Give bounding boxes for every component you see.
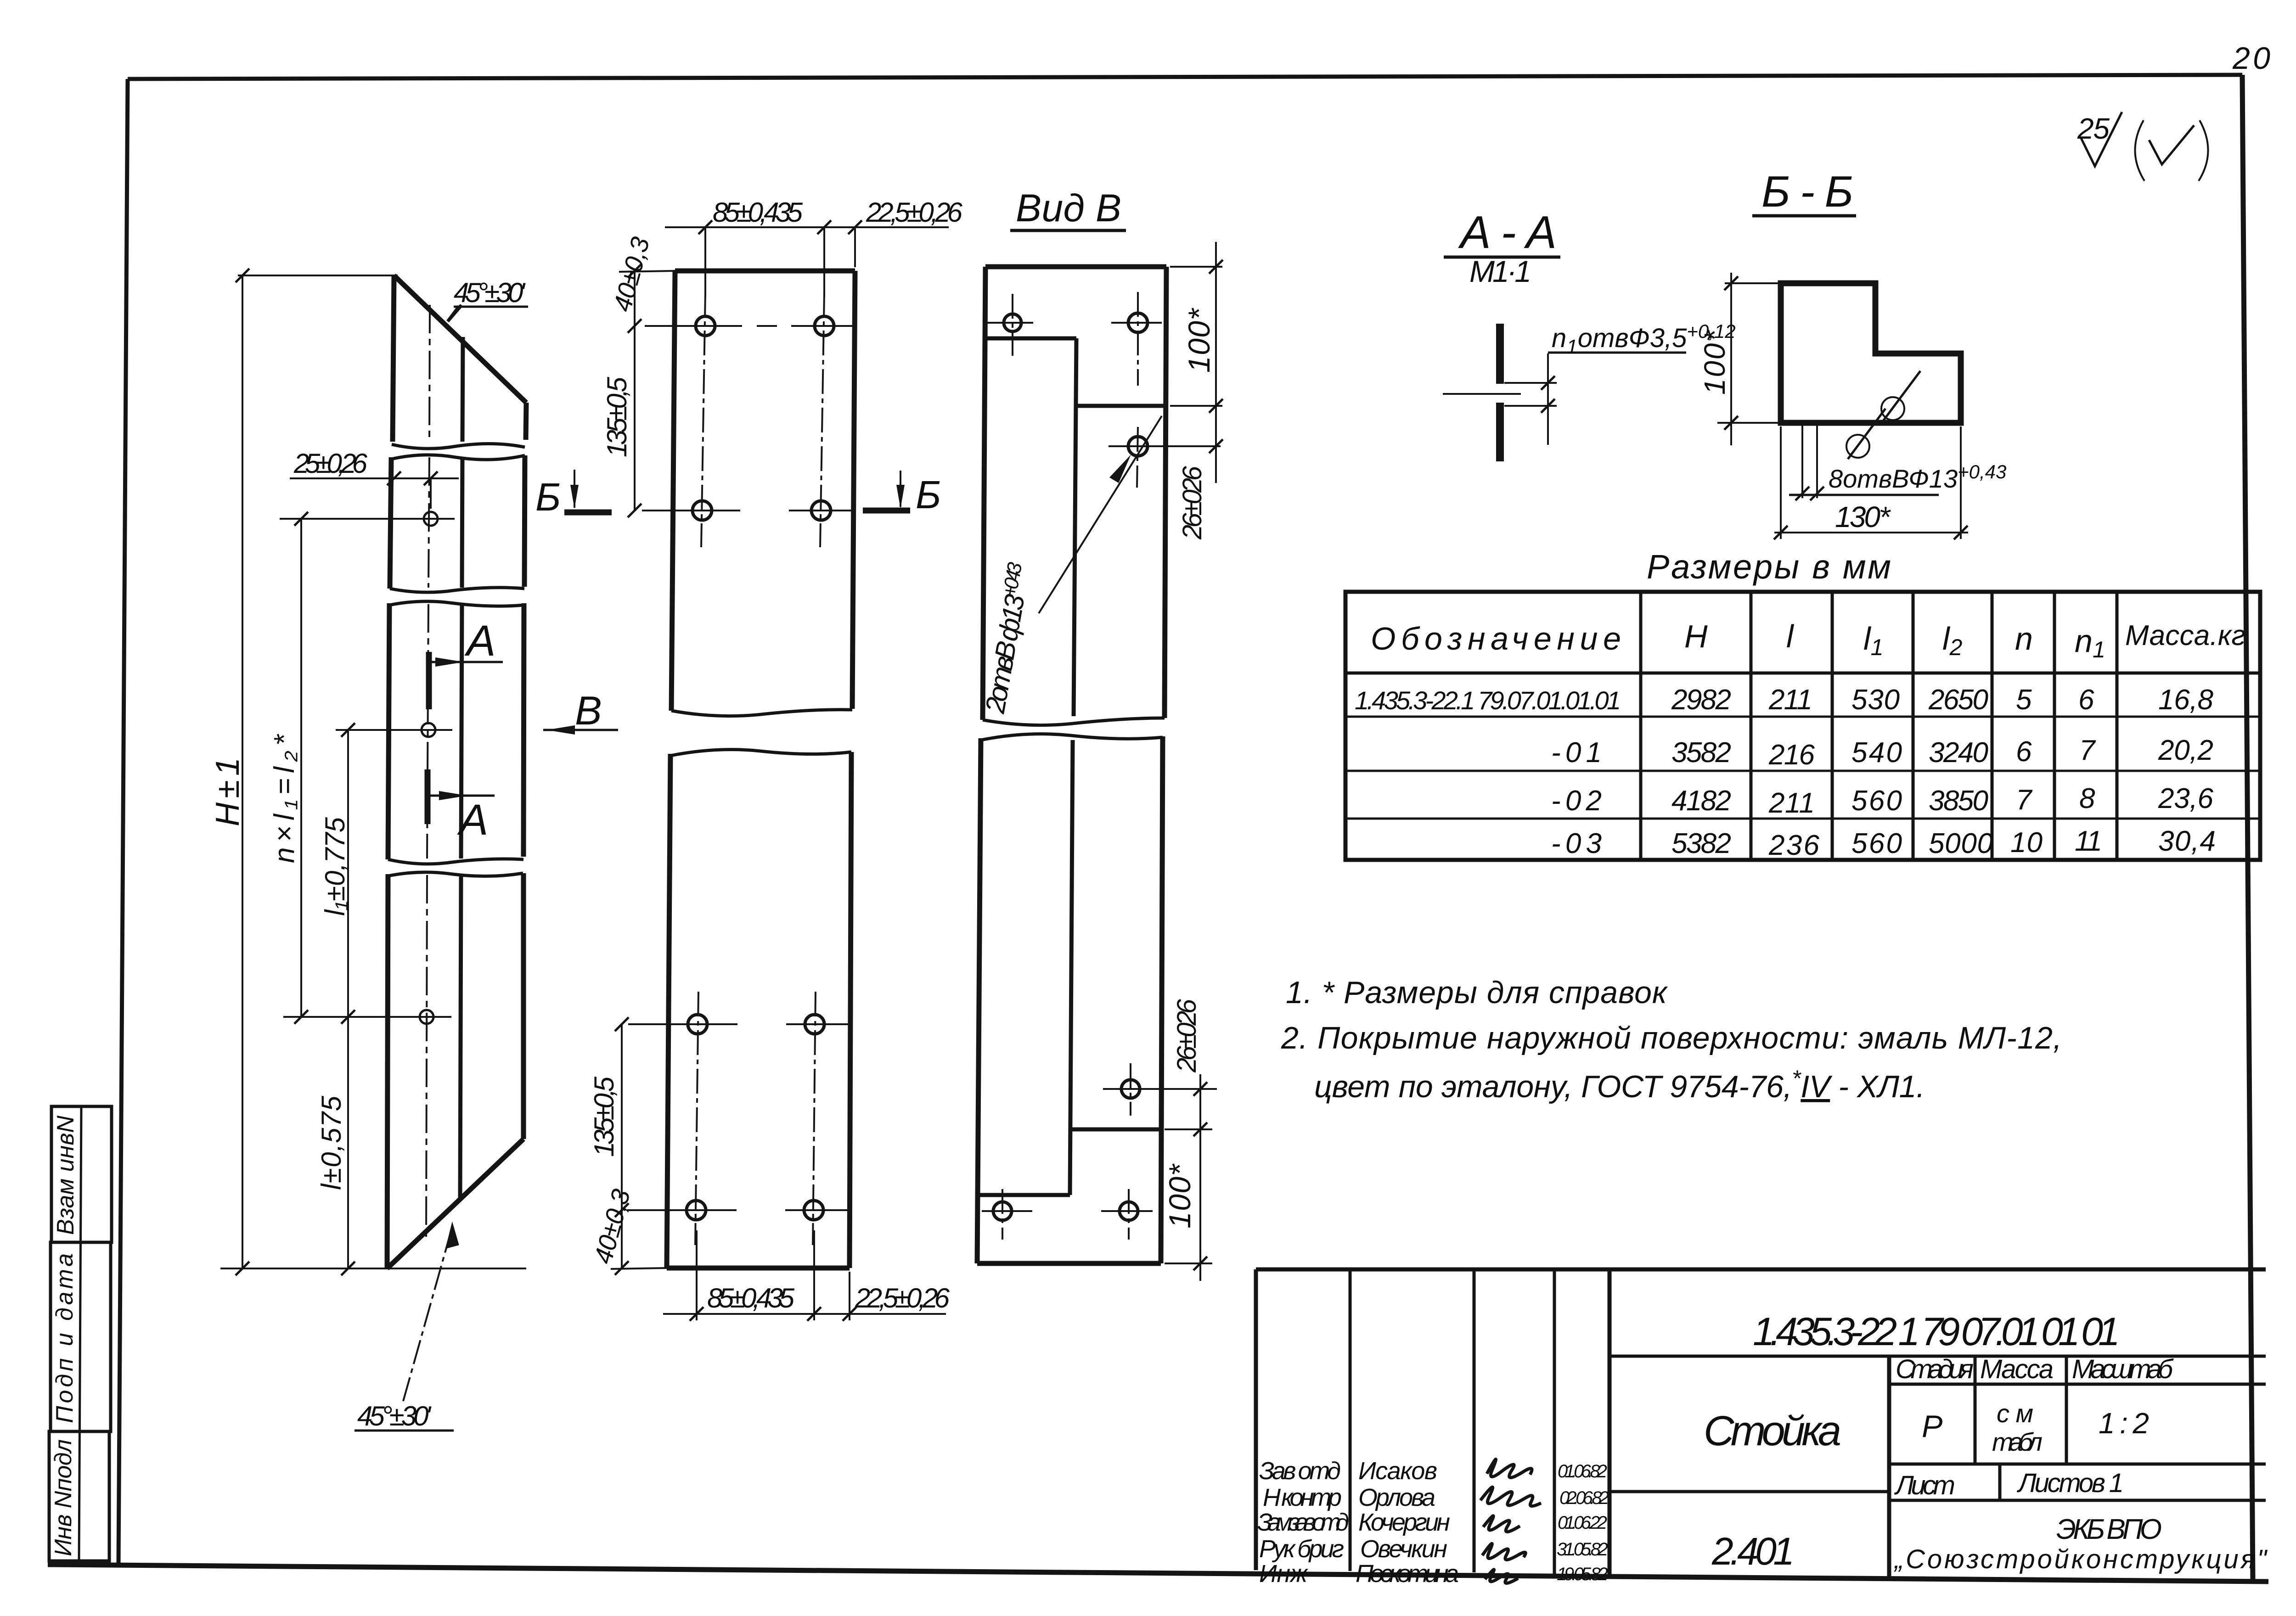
L-shaped outline	[1781, 283, 1961, 423]
seg1 inner step line	[985, 337, 1076, 341]
svg-text:А: А	[457, 796, 488, 844]
svg-text:-03: -03	[1551, 828, 1602, 859]
hole r4c1	[687, 1201, 706, 1220]
hole r3c2	[805, 1015, 824, 1034]
svg-text:1.435.3-22.1 79.07.01.01.01: 1.435.3-22.1 79.07.01.01.01	[1355, 686, 1621, 715]
plate bar cross-section	[1496, 324, 1504, 461]
svg-text:l±0,575: l±0,575	[316, 1095, 347, 1190]
inner edge line	[462, 337, 463, 442]
svg-text:1:2: 1:2	[2099, 1407, 2149, 1440]
svg-text:М1·1: М1·1	[1469, 254, 1531, 288]
extension line hole row A	[280, 518, 455, 520]
svg-text:5: 5	[2016, 684, 2032, 716]
svg-text:Взам инвN: Взам инвN	[52, 1116, 79, 1235]
seg1 lower hole with leader	[1128, 437, 1148, 456]
svg-text:100*: 100*	[1163, 1163, 1197, 1229]
svg-text:6: 6	[2078, 684, 2094, 716]
seg2 bottom holes	[993, 1202, 1012, 1220]
svg-text:216: 216	[1768, 739, 1815, 771]
dimension H+-1	[242, 275, 243, 1268]
seg2 upper hole	[1121, 1080, 1140, 1098]
horizontal centre lines row1	[645, 325, 742, 327]
svg-text:530: 530	[1851, 684, 1900, 716]
svg-text:211: 211	[1768, 684, 1812, 716]
svg-text:25±0,26: 25±0,26	[293, 448, 368, 479]
svg-text:Стойка: Стойка	[1704, 1408, 1841, 1454]
hole A	[424, 512, 438, 526]
svg-text:8: 8	[2079, 783, 2095, 814]
svg-text:l: l	[1786, 618, 1795, 654]
svg-text:l₁±0,775: l₁±0,775	[320, 817, 350, 916]
svg-text:Н: Н	[1684, 618, 1708, 654]
hole r1c1	[696, 316, 715, 336]
extension line hole row C	[283, 1016, 451, 1018]
svg-text:табл: табл	[1992, 1427, 2043, 1456]
svg-text:2650: 2650	[1928, 684, 1988, 716]
svg-text:Масса: Масса	[1980, 1354, 2054, 1384]
leader dim line	[1547, 353, 1549, 445]
svg-text:4182: 4182	[1671, 785, 1731, 817]
section cut A upper mark	[426, 652, 432, 709]
seg2 inner lines	[1070, 740, 1073, 1195]
svg-text:135±0,5: 135±0,5	[602, 376, 632, 457]
plate outline seg1 with top chamfer	[394, 275, 526, 403]
svg-text:Б: Б	[535, 476, 561, 519]
svg-text:02.06.82: 02.06.82	[1559, 1488, 1609, 1508]
seg1 hole left	[1004, 314, 1021, 331]
svg-text:ЭКБ ВПО: ЭКБ ВПО	[2056, 1514, 2162, 1545]
svg-text:H±1: H±1	[209, 757, 246, 826]
roughness symbol lower	[1846, 435, 1869, 458]
svg-text:Лист: Лист	[1894, 1470, 1955, 1500]
svg-text:Подп и дата: Подп и дата	[51, 1253, 78, 1423]
plate seg2 outline	[670, 750, 851, 756]
horizontal centre lines row4	[627, 1209, 737, 1211]
svg-text:Инж: Инж	[1259, 1560, 1309, 1588]
section B-B	[1698, 167, 2006, 539]
svg-text:85±0,435: 85±0,435	[707, 1283, 795, 1313]
svg-text:цвет по эталону, ГОСТ 9754-76,: цвет по эталону, ГОСТ 9754-76,*IV - ХЛ1.	[1314, 1066, 1925, 1104]
svg-text:А-А: А-А	[1458, 207, 1557, 258]
svg-text:16,8: 16,8	[2158, 684, 2214, 716]
svg-text:85±0,435: 85±0,435	[713, 197, 803, 228]
svg-text:Кочергин: Кочергин	[1358, 1509, 1450, 1536]
svg-text:45°±30': 45°±30'	[357, 1401, 432, 1431]
hole edge lines	[1504, 382, 1557, 384]
svg-text:45°±30': 45°±30'	[454, 277, 526, 308]
svg-text:3582: 3582	[1671, 737, 1731, 769]
svg-text:Зав отд: Зав отд	[1259, 1457, 1341, 1485]
svg-text:100*: 100*	[1698, 330, 1731, 395]
svg-text:-02: -02	[1551, 785, 1602, 817]
svg-text:211: 211	[1768, 787, 1815, 819]
svg-text:23,6: 23,6	[2158, 783, 2214, 814]
svg-text:6: 6	[2016, 736, 2032, 768]
svg-text:Р: Р	[1922, 1409, 1942, 1444]
hole B	[422, 723, 435, 737]
dimensions table	[1345, 592, 2260, 861]
hole C	[420, 1010, 433, 1024]
middle view (front elevation)	[588, 197, 963, 1321]
vertical centre lines top holes	[701, 292, 705, 547]
svg-text:Исаков: Исаков	[1358, 1457, 1437, 1485]
svg-text:2. Покрытие наружной поверхнос: 2. Покрытие наружной поверхности: эмаль …	[1281, 1021, 2062, 1055]
svg-text:01.06.22: 01.06.22	[1558, 1513, 1607, 1533]
hole projection dashes	[1801, 423, 1803, 498]
svg-text:22,5±0,26: 22,5±0,26	[855, 1283, 950, 1313]
svg-text:10: 10	[2010, 827, 2043, 858]
svg-text:236: 236	[1768, 830, 1820, 861]
svg-text:1.435.3-22 1 79 07.01 01 01: 1.435.3-22 1 79 07.01 01 01	[1753, 1310, 2120, 1354]
svg-text:560: 560	[1851, 785, 1902, 817]
dimension l1 +-0.775 / l +-0.575	[347, 730, 349, 1268]
hole r2c1	[692, 501, 712, 520]
notes	[1281, 975, 2062, 1104]
dim 100* left	[1725, 282, 1784, 284]
section A-A	[1443, 207, 1736, 461]
svg-text:Масса.кг: Масса.кг	[2125, 620, 2245, 651]
signatures squiggles	[1487, 1459, 1532, 1477]
svg-text:А: А	[464, 617, 495, 665]
svg-text:540: 540	[1851, 737, 1902, 769]
svg-text:Орлова: Орлова	[1358, 1484, 1435, 1511]
roughness symbol upper	[1881, 397, 1904, 420]
svg-text:3240: 3240	[1929, 737, 1988, 769]
svg-text:-01: -01	[1551, 737, 1602, 769]
svg-text:5000: 5000	[1929, 828, 1993, 859]
hole r2c2	[811, 501, 831, 520]
svg-text:Обозначение: Обозначение	[1371, 621, 1621, 656]
svg-text:Листов 1: Листов 1	[2016, 1468, 2124, 1498]
left dimension 40 / 135 top	[634, 271, 636, 511]
svg-text:Рук бриг: Рук бриг	[1259, 1535, 1344, 1563]
section cut A lower mark	[425, 769, 431, 824]
outer and main lines	[1256, 1268, 2266, 1272]
svg-text:7: 7	[2079, 735, 2096, 766]
left margin stamp boxes	[49, 1106, 112, 1561]
svg-text:3850: 3850	[1929, 785, 1988, 817]
horizontal centre lines row3	[628, 1023, 737, 1025]
svg-text:„Союзстройконструкция": „Союзстройконструкция"	[1893, 1544, 2268, 1574]
svg-text:100*: 100*	[1182, 308, 1216, 373]
svg-text:560: 560	[1851, 828, 1902, 859]
svg-text:26±026: 26±026	[1172, 999, 1202, 1073]
svg-text:Н контр: Н контр	[1263, 1484, 1342, 1511]
title block	[1256, 1269, 2268, 1588]
right dimension 100* / 26 seg1	[1215, 242, 1217, 483]
hole r3c1	[688, 1015, 707, 1034]
svg-text:Размеры в мм: Размеры в мм	[1647, 548, 1891, 586]
svg-text:Овечкин: Овечкин	[1360, 1535, 1447, 1563]
svg-text:Б-Б: Б-Б	[1761, 167, 1853, 216]
svg-text:26±026: 26±026	[1177, 466, 1207, 540]
svg-text:Масштаб: Масштаб	[2072, 1354, 2174, 1384]
svg-text:135±0,5: 135±0,5	[589, 1076, 619, 1157]
svg-text:Б: Б	[916, 473, 941, 517]
svg-text:01.06.82: 01.06.82	[1558, 1461, 1607, 1481]
horizontal centre lines row2	[642, 510, 740, 511]
plate seg2	[391, 455, 525, 460]
svg-text:В: В	[575, 688, 602, 733]
svg-text:7: 7	[2016, 784, 2033, 816]
centre dash-dot axis	[429, 305, 430, 442]
right dimension 26 / 100* seg2	[1199, 1074, 1201, 1281]
hole r1c2	[815, 316, 834, 336]
svg-text:30,4: 30,4	[2158, 825, 2216, 857]
hole r4c2	[804, 1201, 823, 1220]
seg2 outline	[981, 734, 1163, 740]
dimension n x l1 = l2*	[300, 519, 302, 1017]
plate seg4 with bottom chamfer	[388, 872, 523, 876]
svg-text:19.05.82: 19.05.82	[1557, 1564, 1608, 1584]
svg-text:Инв Nподл: Инв Nподл	[50, 1439, 77, 1556]
svg-text:31.05.82: 31.05.82	[1557, 1539, 1608, 1560]
left dimension 135 / 40 bottom	[621, 1024, 623, 1268]
svg-text:Поскотина: Поскотина	[1356, 1560, 1459, 1588]
svg-text:22,5±0,26: 22,5±0,26	[866, 197, 963, 228]
svg-text:Вид В: Вид В	[1016, 186, 1121, 230]
svg-text:Стадия: Стадия	[1896, 1354, 1974, 1384]
svg-text:20,2: 20,2	[2158, 735, 2213, 766]
svg-text:5382: 5382	[1671, 828, 1731, 859]
plate seg1 outline	[675, 269, 855, 274]
svg-text:11: 11	[2075, 825, 2102, 857]
roughness mark 25 with checks	[2077, 112, 2208, 181]
svg-text:2.401: 2.401	[1711, 1530, 1795, 1573]
extension line hole row B	[336, 729, 452, 731]
svg-text:130*: 130*	[1835, 500, 1891, 533]
vertical centre lines bottom holes	[695, 992, 698, 1245]
plate seg3	[389, 601, 524, 606]
centre line	[1443, 393, 1521, 395]
seg1 outline	[985, 264, 1166, 269]
svg-text:1. * Размеры для справок: 1. * Размеры для справок	[1286, 975, 1668, 1010]
svg-text:n: n	[2015, 621, 2033, 656]
svg-text:Зам зав отд: Зам зав отд	[1257, 1509, 1349, 1536]
left view (side elevation)	[209, 269, 618, 1431]
view B (Vid V)	[977, 186, 1223, 1281]
seg1 hole right	[1128, 313, 1148, 332]
svg-text:2982: 2982	[1671, 684, 1731, 716]
